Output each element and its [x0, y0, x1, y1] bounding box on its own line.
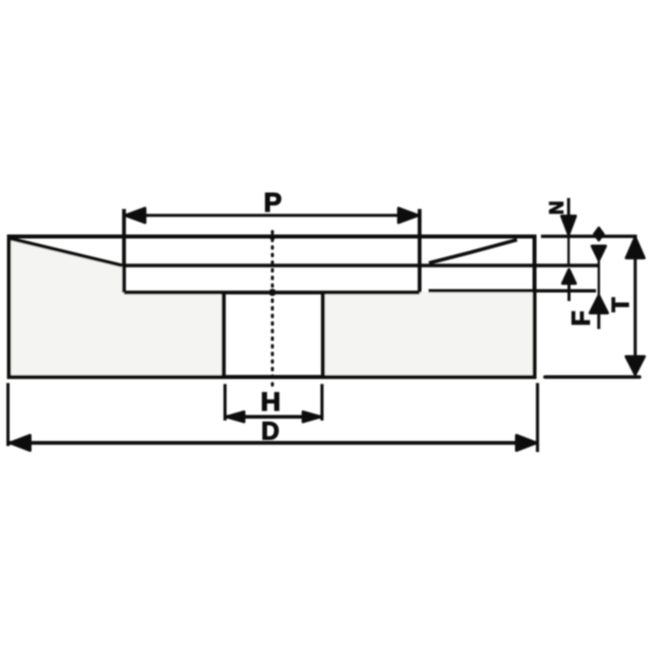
wheel top face line: [9, 235, 535, 239]
H extension line left: [223, 384, 226, 421]
svg-text:D: D: [261, 418, 279, 446]
H extension line right: [320, 384, 323, 421]
H arrowhead left: [227, 412, 245, 422]
D extension line left: [6, 383, 9, 446]
E arrowhead down: [592, 246, 606, 260]
recess step line (P diameter level): [122, 264, 599, 268]
dimension D line: [10, 441, 537, 445]
E stem: [598, 259, 600, 295]
P arrowhead right: [399, 208, 419, 222]
dimension E diamond marker: [594, 228, 604, 241]
wheel right edge: [533, 237, 537, 378]
centerline (dash-dot): [271, 232, 274, 390]
svg-text:T: T: [607, 297, 634, 312]
E lower stem: [597, 313, 600, 329]
svg-text:H: H: [261, 387, 281, 417]
N lower stem: [568, 283, 571, 301]
recess floor line: [124, 291, 420, 295]
T arrowhead down: [626, 357, 644, 375]
dimension H line: [225, 415, 322, 419]
D extension line right: [536, 383, 539, 452]
top face extension line (right): [541, 235, 637, 238]
centerline node dot at recess floor: [269, 289, 276, 296]
bore right wall: [321, 293, 325, 377]
H arrowhead right: [303, 412, 321, 422]
N arrowhead down: [562, 216, 576, 235]
body outline rectangle: [9, 237, 535, 378]
N stem through band: [567, 236, 569, 265]
T arrowhead up: [626, 238, 644, 259]
svg-text:P: P: [264, 188, 282, 218]
wheel body left material (gray fill): [9, 238, 224, 378]
dimension T line: [634, 239, 637, 374]
bore left wall: [222, 293, 226, 377]
recess floor extension line (right): [429, 289, 597, 292]
right relief slant line: [429, 240, 517, 263]
bottom face extension line (right): [545, 375, 640, 379]
left relief slant line: [10, 239, 122, 266]
dimension N stem upper: [567, 198, 570, 215]
dimension P line: [124, 214, 420, 217]
E arrowhead up: [590, 296, 608, 314]
P arrowhead left: [126, 208, 146, 222]
D arrowhead left: [11, 435, 31, 450]
N arrowhead up (lower): [563, 270, 576, 284]
D arrowhead right: [517, 435, 537, 450]
svg-text:N: N: [547, 201, 568, 215]
centerline node dot top: [269, 234, 275, 240]
P extension line right / recess right wall: [418, 209, 422, 293]
wheel bottom face line: [9, 375, 535, 379]
wheel body right material (gray fill): [323, 292, 534, 378]
wheel left edge: [7, 237, 11, 378]
P extension line left / recess left wall: [122, 209, 126, 293]
svg-text:F: F: [567, 311, 595, 326]
